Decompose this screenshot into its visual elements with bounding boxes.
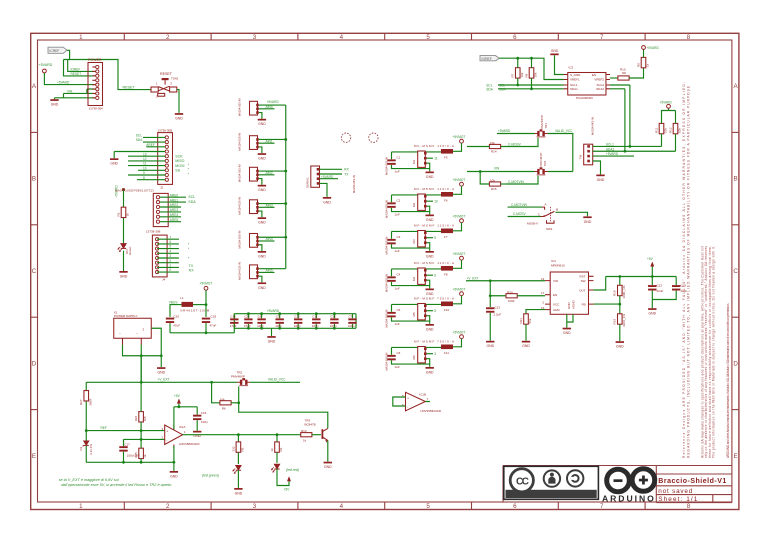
wire C-MOTVIN <box>506 183 525 185</box>
supply +5VMOT M5 <box>453 287 466 304</box>
wire fuse to connector M3 <box>392 230 442 232</box>
wire SDA2 out <box>610 88 625 90</box>
supply +5V arrow <box>647 257 654 277</box>
svg-text:5: 5 <box>434 309 436 313</box>
svg-text:GND: GND <box>567 302 571 310</box>
wire digital pin 1 <box>157 266 179 268</box>
capacitor C22 22uF <box>648 277 664 309</box>
wire serial gnd <box>320 183 328 197</box>
svg-text:C10: C10 <box>294 315 300 319</box>
connector M6 <box>385 347 427 371</box>
wire M5 pin3 to gnd <box>427 316 430 324</box>
junction bus servo5 <box>284 236 287 239</box>
junction R8 top <box>530 57 533 60</box>
svg-text:F10: F10 <box>444 308 450 312</box>
junction rail opamp <box>173 461 176 464</box>
svg-text:MF-MSMF 110/X-A: MF-MSMF 110/X-A <box>414 224 454 228</box>
connector M2 <box>385 194 427 218</box>
ground IC1A <box>170 471 179 478</box>
junction bus R6 <box>210 381 213 384</box>
svg-text:47uF: 47uF <box>210 323 217 327</box>
net flag IOREF right <box>480 56 499 61</box>
capacitor C7 100n <box>348 314 357 329</box>
wire TW +5VARD row <box>593 155 634 157</box>
svg-text:R26: R26 <box>134 415 138 421</box>
svg-text:BC847B: BC847B <box>305 423 316 427</box>
svg-text:1k: 1k <box>646 63 650 67</box>
ground IC4 <box>563 328 572 335</box>
svg-text:3: 3 <box>169 254 171 258</box>
svg-text:+5VMOT: +5VMOT <box>453 178 466 182</box>
resistor R2 1k <box>116 207 129 217</box>
capacitor C3 1uF <box>387 231 429 253</box>
wire servo3 pin2 <box>259 174 275 176</box>
fuse F6 <box>441 192 453 202</box>
capacitor C1 1uF <box>387 152 429 174</box>
junction output R5 <box>237 433 240 436</box>
svg-text:VIN: VIN <box>67 89 73 93</box>
svg-text:dall'operazionale esce 5V, si: dall'operazionale esce 5V, si accende il… <box>61 483 171 487</box>
svg-text:ARE5: ARE5 <box>170 218 179 222</box>
svg-text:AIN4: AIN4 <box>266 237 273 241</box>
junction FB <box>618 303 621 306</box>
CC license badge <box>504 466 599 499</box>
svg-text:100k: 100k <box>508 299 515 303</box>
fuse F7 <box>441 229 453 239</box>
wire J2 pin 9 <box>128 174 165 176</box>
ground servo2 <box>258 153 267 160</box>
wire GND row power <box>55 93 95 99</box>
svg-text:C12: C12 <box>330 315 336 319</box>
svg-text:+5V: +5V <box>174 394 181 398</box>
diode D1 zener <box>79 431 93 463</box>
svg-text:+5VARD: +5VARD <box>660 101 673 105</box>
svg-text:(led red): (led red) <box>286 468 299 472</box>
svg-text:VREF2: VREF2 <box>594 78 604 82</box>
wire X1 pin3 <box>151 328 161 367</box>
svg-text:C16: C16 <box>230 315 236 319</box>
connector digital header 8pin <box>152 235 167 281</box>
wire J2 pin 12 <box>128 160 165 162</box>
wire R2 chain <box>123 190 125 271</box>
svg-text:+: + <box>407 397 409 401</box>
svg-text:B: B <box>32 176 36 183</box>
svg-text:1uF: 1uF <box>395 249 400 253</box>
ground C16 <box>193 431 202 438</box>
svg-text:+5VMOT: +5VMOT <box>200 282 213 286</box>
connector M4 <box>385 268 427 292</box>
svg-text:C6: C6 <box>397 351 401 355</box>
svg-text:VIN: VIN <box>494 167 500 171</box>
supply +5V opamp <box>174 394 197 429</box>
transistor TR2 PMV48XP <box>231 370 250 385</box>
junction cap bank 279.7 <box>278 312 281 315</box>
svg-text:IC3: IC3 <box>569 65 574 69</box>
wire L1 to +5VMOT node <box>193 304 206 306</box>
pushbutton TS42 RESET <box>151 72 179 98</box>
wire TR2 gate chain <box>239 387 328 429</box>
wire servo1 pin3 to gnd <box>259 113 262 119</box>
resistor R8 10k <box>524 58 537 89</box>
svg-text:L1: L1 <box>180 296 184 300</box>
svg-text:3: 3 <box>253 34 257 41</box>
svg-text:MA254-03S-IN: MA254-03S-IN <box>238 262 242 280</box>
wire servo3 pin1 to bus <box>259 170 286 172</box>
svg-text:B: B <box>556 208 558 212</box>
svg-text:9: 9 <box>434 236 436 240</box>
svg-text:C-MOTVIN: C-MOTVIN <box>511 203 527 207</box>
svg-text:ARE4: ARE4 <box>170 213 179 217</box>
supply +5VMOT M2 <box>453 178 466 195</box>
svg-text:MA254-03S-IN: MA254-03S-IN <box>238 133 242 151</box>
svg-text:VCC: VCC <box>553 302 560 306</box>
junction TR2 gate R6 <box>237 401 240 404</box>
connector servo-in 3 MA254 <box>238 164 259 182</box>
connector servo-in 4 MA254 <box>238 197 259 215</box>
ground servo4 <box>258 217 267 224</box>
svg-text:MF-MSMF 110/X-A: MF-MSMF 110/X-A <box>414 261 454 265</box>
wire M6 pin2 <box>427 353 433 355</box>
svg-text:MSS6-V: MSS6-V <box>527 222 538 226</box>
svg-text:R18: R18 <box>613 290 617 296</box>
ground C13 <box>486 341 495 348</box>
wire minus input row <box>124 439 165 441</box>
resistor R27 360R <box>79 391 92 406</box>
svg-text:M2: M2 <box>412 203 416 207</box>
wire M6 pin3 to gnd <box>427 359 430 367</box>
wire IOREF flag to bus <box>64 50 151 89</box>
inductor L1 <box>180 296 210 313</box>
svg-text:R7: R7 <box>511 73 515 77</box>
ground cap bank <box>267 336 276 343</box>
svg-text:SDA: SDA <box>188 200 196 204</box>
junction bus servo4 <box>284 202 287 205</box>
ground J2 <box>110 158 119 165</box>
svg-text:232: 232 <box>231 446 235 451</box>
resistor R5 232 <box>231 435 244 464</box>
wire J2 SCL <box>143 136 165 138</box>
title block table <box>656 466 732 503</box>
svg-text:IOREF: IOREF <box>482 57 492 61</box>
svg-text:M4: M4 <box>412 277 416 281</box>
resistor R31 56k <box>519 314 532 341</box>
junction bus X1 <box>140 381 143 384</box>
svg-text:R5: R5 <box>241 447 245 451</box>
wire analog pin ARE1 <box>160 201 186 203</box>
connector servo-in 2 MA254 <box>238 133 259 151</box>
svg-text:+: + <box>166 429 168 433</box>
svg-text:LMV358IDGKR: LMV358IDGKR <box>179 442 201 446</box>
wire TR1 gate <box>525 138 538 147</box>
connector POWER header <box>88 58 103 110</box>
wire opamp output row <box>183 434 301 436</box>
connector servo-in 6 MA254 <box>238 262 259 280</box>
ground R31 <box>522 341 531 348</box>
svg-text:13738-304: 13738-304 <box>89 106 104 110</box>
svg-text:se la V_EXT è maggiore di 6,6V: se la V_EXT è maggiore di 6,6V sul <box>59 478 119 482</box>
capacitor C2 1uF <box>387 195 429 217</box>
svg-text:+: + <box>648 283 650 287</box>
resistor R26 1k5 <box>134 356 147 449</box>
wire J2 pin 11 <box>128 165 165 167</box>
wire bottom rail L1 area <box>170 332 235 334</box>
svg-text:8: 8 <box>687 34 691 41</box>
svg-text:not saved: not saved <box>658 488 692 495</box>
wire TR1 to VALID_VCC <box>548 134 573 172</box>
wire servo4 pin3 to gnd <box>259 211 262 217</box>
ground LED ON <box>119 271 128 278</box>
svg-text:FB: FB <box>582 302 586 306</box>
svg-text:10k: 10k <box>490 179 495 183</box>
switch SW1 MSS6-V <box>508 203 558 232</box>
svg-text:6: 6 <box>169 240 171 244</box>
capacitor C9 100n <box>275 314 284 329</box>
wire TW gnd <box>593 161 601 174</box>
svg-text:C1: C1 <box>397 155 401 159</box>
ground LED green <box>234 488 243 495</box>
op-amp IC1B unused <box>402 392 442 413</box>
svg-text:R11: R11 <box>654 127 658 133</box>
wire servo3 pin3 to gnd <box>259 179 262 185</box>
svg-text:11: 11 <box>434 157 438 161</box>
wire J2 pin 8 <box>137 179 165 181</box>
op-amp IC1A LMV358IDGKR <box>162 425 201 448</box>
supply +5VMOT M1 <box>453 135 466 152</box>
svg-text:+5VMOT: +5VMOT <box>453 287 466 291</box>
wire VIN branch down <box>480 172 489 185</box>
wire IOREF row <box>68 60 95 72</box>
wire IC4 gnd <box>567 314 573 327</box>
wire M5 pin2 <box>427 310 433 312</box>
connector SERIAL MA254-04 <box>306 166 357 193</box>
svg-text:C5: C5 <box>397 308 401 312</box>
svg-text:C21: C21 <box>244 315 250 319</box>
svg-text:C19: C19 <box>680 283 686 287</box>
wire fuse to connector M4 <box>392 268 442 270</box>
svg-text:+V_EXT: +V_EXT <box>158 378 170 382</box>
svg-text:SERIAL: SERIAL <box>306 177 310 188</box>
svg-text:1k: 1k <box>143 454 147 458</box>
wire VIN to TR4 <box>467 171 535 173</box>
junction X1 <box>160 354 163 357</box>
wire M1 pin3 to gnd <box>427 163 430 171</box>
wire EN row <box>490 281 506 307</box>
svg-text:C13: C13 <box>495 306 501 310</box>
svg-text:C7: C7 <box>349 315 353 319</box>
PWM asterisks 8pin <box>188 242 190 260</box>
wire J2 pin 10 <box>138 169 165 171</box>
svg-text:AREF: AREF <box>146 143 155 147</box>
wire fuse to connector M5 <box>392 303 442 305</box>
svg-text:AGND: AGND <box>572 299 576 309</box>
wire servo5 pin3 to gnd <box>259 245 262 251</box>
svg-text:MA04-10SDP08S1(9732): MA04-10SDP08S1(9732) <box>115 188 154 192</box>
wire M1 pin2 <box>427 157 433 159</box>
svg-text:TR4: TR4 <box>543 161 547 167</box>
svg-text:J4: J4 <box>162 278 166 282</box>
svg-text:6: 6 <box>513 34 517 41</box>
svg-text:AIN0: AIN0 <box>266 105 273 109</box>
wire J2 pin 13 <box>128 155 165 157</box>
svg-text:47uF: 47uF <box>244 324 251 328</box>
wire C-MOSV <box>506 146 525 148</box>
wire servo6 pin1 to bus <box>259 268 286 270</box>
PWM asterisks J2 <box>188 163 190 176</box>
wire X1 bottom pins <box>123 345 162 383</box>
wire digital pin 5 <box>157 248 179 250</box>
svg-text:100n: 100n <box>201 420 208 424</box>
LED green DL1 <box>233 465 241 488</box>
wire servo2 pin2 <box>259 142 275 144</box>
svg-text:RX: RX <box>189 269 195 273</box>
junction cap bank 261.6 <box>260 312 263 315</box>
svg-text:(led green): (led green) <box>202 474 219 478</box>
op IC3 PCA9306 <box>564 65 611 100</box>
svg-text:R15: R15 <box>491 187 497 191</box>
svg-text:R14: R14 <box>491 150 497 154</box>
resistor R18 100K_1% <box>613 277 626 305</box>
wire J2 GND row <box>114 152 165 159</box>
svg-text:R19: R19 <box>613 319 617 325</box>
wire SDA2 vertical <box>624 89 626 151</box>
svg-text:2: 2 <box>166 503 170 510</box>
capacitor C6 1uF <box>387 347 429 369</box>
svg-text:C8: C8 <box>258 315 262 319</box>
Arduino logo minus <box>614 479 623 482</box>
svg-text:6: 6 <box>513 503 517 510</box>
resistor R11 10k pullup <box>654 111 675 147</box>
svg-text:REGARDING PRODUCTS, INCLUDING: REGARDING PRODUCTS, INCLUDING BUT NOT LI… <box>687 86 691 458</box>
svg-text:SDA2: SDA2 <box>596 87 604 91</box>
svg-text:VREF1: VREF1 <box>570 78 580 82</box>
svg-text:TX: TX <box>189 264 194 268</box>
svg-text:1: 1 <box>79 503 83 510</box>
svg-text:M5: M5 <box>412 312 416 316</box>
ground M4 <box>426 289 435 296</box>
svg-text:CC: CC <box>516 476 529 487</box>
svg-text:+5VMOT: +5VMOT <box>453 135 466 139</box>
svg-text:MA254-04S-IN: MA254-04S-IN <box>591 117 595 135</box>
svg-text:5: 5 <box>426 503 430 510</box>
svg-text:3: 3 <box>253 503 257 510</box>
node TX RX labels <box>189 264 195 273</box>
resistor R15 10k <box>489 179 506 192</box>
svg-text:10k: 10k <box>520 72 524 77</box>
svg-text:2: 2 <box>169 259 171 263</box>
svg-text:12: 12 <box>143 157 147 161</box>
connector M3 <box>385 231 427 255</box>
svg-text:4: 4 <box>340 34 344 41</box>
svg-text:MF-MSMF 110/X-A: MF-MSMF 110/X-A <box>414 187 454 191</box>
capacitor C19 100n <box>652 277 687 300</box>
svg-text:C18: C18 <box>211 314 217 318</box>
capacitor C20 47uF <box>166 314 180 333</box>
svg-text:ICREF: ICREF <box>49 49 59 53</box>
ground X1 <box>157 367 166 374</box>
svg-text:+5V: +5V <box>647 257 654 261</box>
svg-text:EN: EN <box>553 293 557 297</box>
svg-text:E: E <box>32 453 36 460</box>
svg-text:M1: M1 <box>412 160 416 164</box>
svg-text:3: 3 <box>434 352 436 356</box>
junction cap bank 334.4 <box>333 312 336 315</box>
wire analog pin ARE0 <box>160 196 186 198</box>
svg-text:C: C <box>733 268 738 275</box>
mounting hole H1 <box>341 133 350 142</box>
wire TR4 gate <box>525 176 538 184</box>
svg-text:4: 4 <box>340 503 344 510</box>
svg-text:C11: C11 <box>312 315 318 319</box>
svg-text:7: 7 <box>169 235 171 239</box>
wire +V_EXT bus <box>86 381 237 383</box>
svg-text:47uF: 47uF <box>173 323 180 327</box>
wire servo1 pin1 to bus <box>259 104 286 106</box>
resistor R6 10k <box>220 397 239 410</box>
wire digital pin 6 <box>157 243 179 245</box>
title block boundary <box>503 466 656 503</box>
svg-text:100n: 100n <box>257 324 264 328</box>
svg-text:B: B <box>734 176 738 183</box>
wire M3 pin2 <box>427 237 433 239</box>
junction R2 top <box>122 188 125 191</box>
svg-text:17: 17 <box>541 291 545 295</box>
svg-text:PMV48XP: PMV48XP <box>231 374 245 378</box>
svg-text:LMV358IDGKR: LMV358IDGKR <box>420 409 442 413</box>
ground servo6 <box>258 282 267 289</box>
svg-text:8: 8 <box>687 503 691 510</box>
capacitor C8 100n <box>257 314 266 329</box>
svg-text:AIN5: AIN5 <box>266 269 273 273</box>
transistor TR1 PMV48XP <box>535 115 549 137</box>
wire SCL row to IC3 <box>498 84 564 86</box>
junction EN <box>489 294 492 297</box>
wire analog pin ARE3 <box>160 211 181 213</box>
capacitor C5 1uF <box>387 304 429 326</box>
svg-text:IC4: IC4 <box>551 259 556 263</box>
resistor R19 31K6_1% <box>613 304 626 341</box>
svg-text:TW: TW <box>578 155 582 160</box>
ground servo5 <box>258 251 267 258</box>
svg-text:MOSI: MOSI <box>175 164 184 168</box>
svg-text:ARE2: ARE2 <box>170 203 179 207</box>
junction rail C17 <box>122 461 125 464</box>
supply +5VMOT M4 <box>453 252 466 268</box>
capacitor C16 47uF <box>230 314 239 329</box>
svg-text:C-MOSV: C-MOSV <box>513 212 527 216</box>
svg-text:1: 1 <box>169 264 171 268</box>
ground reset switch <box>175 113 184 120</box>
svg-text:VBUS: VBUS <box>169 300 178 304</box>
wire M2 pin2 <box>427 200 433 202</box>
junction R7 top <box>516 57 519 60</box>
resistor R13 1k <box>301 429 321 443</box>
svg-text:IC1A: IC1A <box>179 425 186 429</box>
svg-text:+5VARD: +5VARD <box>321 175 334 179</box>
wire RESET row <box>64 60 95 76</box>
svg-text:M3: M3 <box>412 239 416 243</box>
wire servo5 pin1 to bus <box>259 236 286 238</box>
svg-text:+5VARD: +5VARD <box>39 63 53 67</box>
svg-text:Sheet: 1/1: Sheet: 1/1 <box>658 496 697 503</box>
svg-text:PCA9306DC: PCA9306DC <box>576 96 594 100</box>
ground TR3 <box>324 462 333 469</box>
svg-text:D: D <box>733 360 738 367</box>
wire gnd rail bottom-left <box>86 461 174 463</box>
svg-text:MF-MSMF 110/X-A: MF-MSMF 110/X-A <box>414 144 454 148</box>
svg-text:1uF: 1uF <box>395 169 400 173</box>
svg-text:5: 5 <box>169 245 171 249</box>
connector J2 13738-30B <box>158 128 173 189</box>
